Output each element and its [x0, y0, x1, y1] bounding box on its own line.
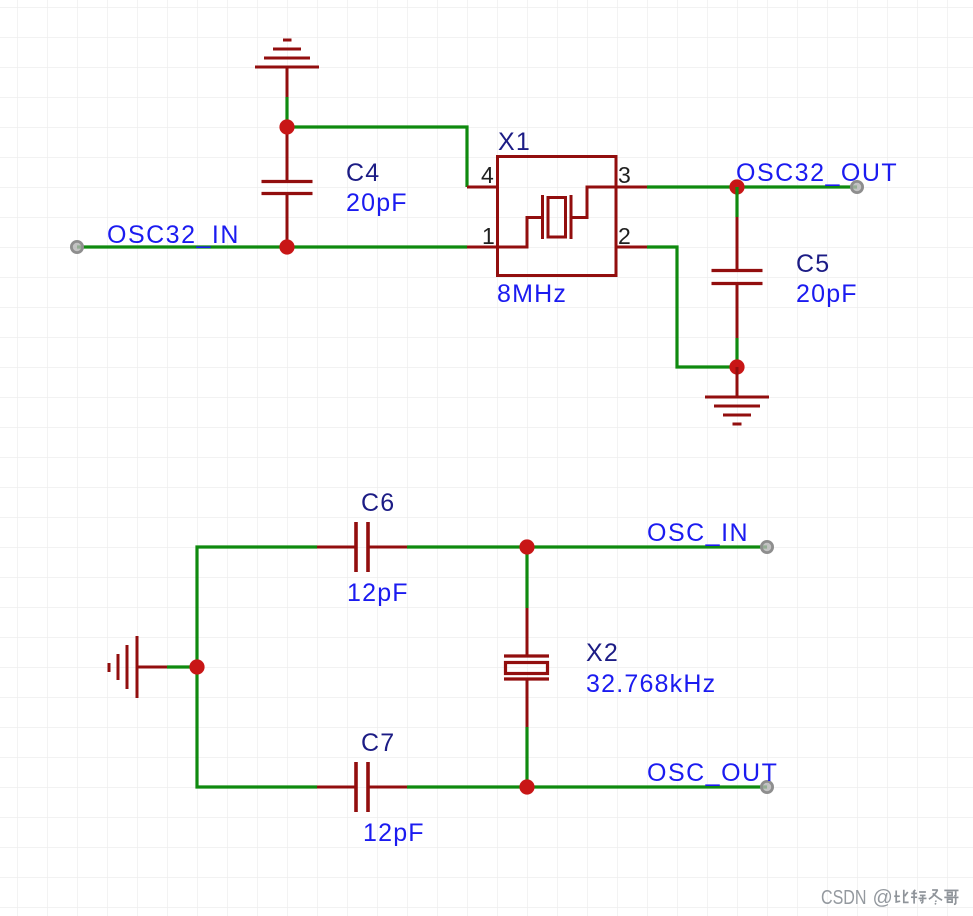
- svg-text:@: @: [873, 887, 893, 909]
- X1 pin 2 lead: [616, 246, 647, 249]
- wire X1 pin2 to corner: [647, 247, 737, 367]
- svg-text:OSC_OUT: OSC_OUT: [647, 759, 778, 787]
- svg-text:C4: C4: [346, 159, 380, 187]
- svg-text:3: 3: [618, 162, 631, 188]
- junction dot C5 bottom: [729, 359, 744, 374]
- svg-text:X2: X2: [586, 639, 619, 667]
- svg-text:OSC32_IN: OSC32_IN: [107, 221, 240, 249]
- X1 internal lead pin3 side: [573, 187, 617, 218]
- junction dot OSC_IN/X2: [519, 539, 534, 554]
- wire bottom rail right of C7: [407, 785, 767, 788]
- svg-text:12pF: 12pF: [363, 819, 425, 847]
- wire left rail with corners: [197, 547, 317, 787]
- wire junction to C5 top: [735, 187, 738, 217]
- crystal X1: [467, 157, 647, 276]
- svg-text:1: 1: [482, 223, 495, 249]
- ground GND3 left: [109, 636, 167, 698]
- crystal X2: [504, 608, 549, 727]
- wire X1 pin3 to OSC32_OUT terminal: [647, 185, 857, 188]
- wire gnd3 to junction: [167, 665, 197, 668]
- X1 pin 4 lead: [467, 186, 497, 189]
- junction dot OSC_OUT/X2: [519, 779, 534, 794]
- pin terminal OSC32_OUT: [851, 181, 862, 192]
- X1 crystal right plate: [570, 195, 573, 239]
- junction dot gnd3: [189, 659, 204, 674]
- X1 pin 1 lead: [467, 246, 497, 249]
- svg-text:8MHz: 8MHz: [497, 280, 567, 308]
- pin terminal OSC_IN: [761, 541, 772, 552]
- wire gnd1 to junction: [285, 97, 288, 127]
- svg-text:2: 2: [618, 223, 631, 249]
- svg-text:20pF: 20pF: [346, 189, 408, 217]
- X1 pin 3 lead: [616, 186, 647, 189]
- wire top rail right of C6: [407, 545, 767, 548]
- X1 crystal inner rect: [548, 198, 566, 238]
- capacitor C5: [712, 217, 763, 338]
- ground GND2 below C5: [705, 367, 769, 424]
- wire X2 bottom: [525, 727, 528, 787]
- wire OSC32_IN horizontal: [77, 245, 467, 248]
- watermark chinese char dong: [929, 890, 942, 904]
- X1 body rectangle: [498, 157, 617, 276]
- pin terminal OSC_OUT: [761, 781, 772, 792]
- capacitor C4: [262, 127, 313, 247]
- junction dot C4/OSC32_IN: [279, 239, 294, 254]
- wire C5 bottom to junction: [735, 338, 738, 367]
- watermark chinese char te: [911, 890, 927, 904]
- svg-text:X1: X1: [498, 128, 531, 156]
- wire junction to corner above X1 pin4: [287, 127, 467, 187]
- svg-text:4: 4: [481, 162, 494, 188]
- svg-text:C5: C5: [796, 250, 830, 278]
- svg-text:CSDN: CSDN: [821, 887, 867, 909]
- svg-text:OSC_IN: OSC_IN: [647, 519, 749, 547]
- svg-text:20pF: 20pF: [796, 280, 858, 308]
- watermark chinese char ge: [944, 890, 958, 904]
- X1 internal lead pin1 side: [498, 218, 542, 248]
- wire X2 top: [525, 547, 528, 608]
- svg-text:C7: C7: [361, 729, 395, 757]
- capacitor C7: [317, 762, 407, 812]
- pin terminal OSC32_IN: [71, 241, 82, 252]
- watermark chinese char bi: [894, 890, 908, 903]
- ground GND1 top: [255, 40, 319, 97]
- svg-text:32.768kHz: 32.768kHz: [586, 670, 716, 698]
- svg-text:C6: C6: [361, 489, 395, 517]
- X1 crystal left plate: [541, 195, 544, 239]
- svg-text:OSC32_OUT: OSC32_OUT: [736, 159, 898, 187]
- junction dot OSC32_OUT/C5: [729, 179, 744, 194]
- junction dot above C4: [279, 119, 294, 134]
- capacitor C6: [317, 522, 407, 572]
- svg-text:12pF: 12pF: [347, 579, 409, 607]
